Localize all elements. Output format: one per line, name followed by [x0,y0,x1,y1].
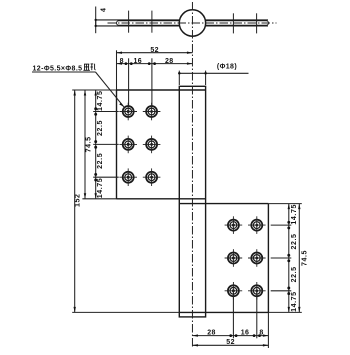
leader arrowhead [119,103,124,107]
dim phi18 [178,71,248,85]
top view horizontal centerline [108,22,277,24]
holes upper leaf [119,103,160,186]
front view barrel pipe [179,86,205,317]
svg-text:52: 52 [226,339,235,346]
svg-text:8: 8 [120,58,124,65]
hole extension col A up [128,58,130,111]
kanji blob 2 [90,64,95,70]
svg-text:14.75: 14.75 [291,291,298,312]
svg-text:16: 16 [241,330,250,337]
dim rows left [94,90,97,199]
dim 74.5 left [84,90,86,199]
dim 52 top [117,52,193,54]
extension lines bottom [233,291,268,348]
svg-text:28: 28 [207,330,216,337]
svg-text:22.5: 22.5 [291,233,298,249]
main axis centerline [191,2,193,347]
front view lower leaf [179,204,268,313]
hole extension col B up [151,58,153,111]
thickness dim line 4 [95,7,97,34]
leaf corner extension up [116,50,118,90]
svg-text:22.5: 22.5 [97,120,104,136]
top view leaf bar rounded [117,21,269,25]
dim 74.5 right [298,204,300,313]
top view plate outer outline [96,20,268,26]
svg-text:16: 16 [134,58,143,65]
dim chain 8 16 28 top [117,62,193,65]
dim 52 bottom [192,344,268,346]
svg-text:(Φ18): (Φ18) [217,64,237,71]
top view knuckle circle [179,10,205,36]
kanji blob 1 [83,64,90,70]
svg-text:74.5: 74.5 [85,136,92,152]
svg-text:28: 28 [165,58,174,65]
svg-text:4: 4 [100,7,107,12]
svg-text:14.75: 14.75 [97,178,104,199]
top view hole tick right 1 [232,13,234,33]
svg-text:14.75: 14.75 [97,90,104,111]
svg-text:52: 52 [150,47,159,54]
leader underline and line [32,72,124,107]
front view upper leaf [117,90,206,199]
dim rows right [287,204,290,313]
top view hole tick right 2 [256,13,258,33]
svg-text:8: 8 [259,330,263,337]
dim 152 left [74,90,76,312]
svg-text:152: 152 [75,193,82,206]
dim chain 28 16 8 bottom [192,334,268,337]
extension lines right [268,204,301,313]
top view hole tick left 1 [128,11,130,33]
holes lower leaf [225,216,266,299]
extension lines left [72,90,179,312]
svg-text:14.75: 14.75 [291,204,298,225]
svg-text:74.5: 74.5 [302,250,309,266]
svg-text:22.5: 22.5 [97,153,104,169]
svg-text:12-Φ5.5×Φ8.5: 12-Φ5.5×Φ8.5 [33,65,83,72]
top view hole tick left 2 [151,11,153,33]
svg-text:22.5: 22.5 [291,266,298,282]
